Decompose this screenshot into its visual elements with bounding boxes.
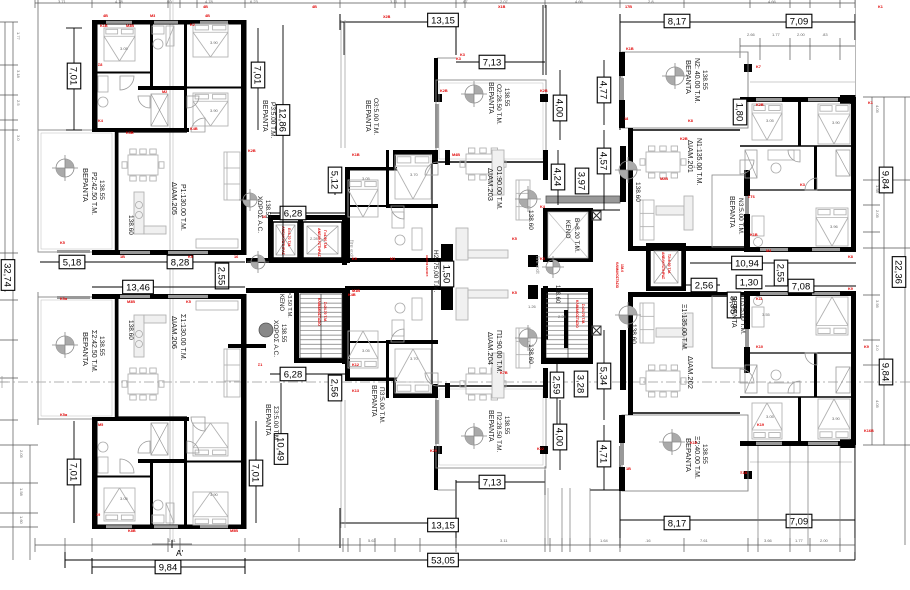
- svg-text:Κ10: Κ10: [756, 345, 763, 349]
- svg-text:5,12: 5,12: [329, 171, 340, 190]
- dim 22,36 right: [892, 257, 906, 288]
- svg-text:4,77: 4,77: [598, 81, 609, 100]
- svg-text:4Β: 4Β: [312, 5, 317, 9]
- wall center bridge: [441, 244, 453, 262]
- svg-text:1,50: 1,50: [441, 265, 452, 284]
- svg-text:4,71: 4,71: [598, 445, 609, 464]
- svg-text:Κ9: Κ9: [864, 345, 869, 349]
- apartment DIAM.201 top-right unit: [619, 52, 856, 252]
- svg-text:Κ5α: Κ5α: [60, 413, 68, 417]
- svg-text:1.64: 1.64: [600, 538, 609, 543]
- svg-text:4.78: 4.78: [205, 0, 214, 4]
- svg-text:Π3:5.00 Τ.Μ.: Π3:5.00 Τ.Μ.: [378, 387, 385, 424]
- dim 4,24: [557, 150, 559, 205]
- svg-text:3.18: 3.18: [16, 70, 21, 79]
- svg-text:3,28: 3,28: [575, 375, 586, 394]
- svg-text:8,17: 8,17: [668, 16, 687, 27]
- svg-text:Κ5: Κ5: [60, 241, 65, 245]
- svg-text:.16: .16: [645, 538, 651, 543]
- svg-text:3.0: 3.0: [16, 135, 21, 141]
- void KENO hatch: [548, 212, 588, 258]
- svg-text:Α': Α': [176, 548, 184, 558]
- svg-text:3.11: 3.11: [500, 538, 508, 543]
- svg-text:4,57: 4,57: [598, 152, 609, 171]
- svg-text:Τ2=6.50 Τ.Μ.: Τ2=6.50 Τ.Μ.: [667, 254, 671, 274]
- dim 5,34: [603, 330, 605, 420]
- svg-text:3.05: 3.05: [362, 176, 371, 181]
- svg-text:4,00: 4,00: [554, 428, 565, 447]
- svg-text:Κ8Β: Κ8Β: [128, 529, 136, 533]
- svg-text:Κ2Β: Κ2Β: [756, 103, 764, 107]
- svg-text:5,34: 5,34: [598, 367, 609, 386]
- svg-text:3.90: 3.90: [210, 492, 219, 497]
- svg-text:Κ15: Κ15: [690, 441, 697, 445]
- svg-text:3.11: 3.11: [390, 0, 398, 4]
- dim 32,74 left: [1, 260, 15, 291]
- dim 2,55 left: [215, 263, 229, 289]
- svg-text:ΒΕΡΑΝΤΑ: ΒΕΡΑΝΤΑ: [81, 168, 90, 202]
- wall left core bottom (stairwell): [246, 288, 350, 293]
- svg-text:Β=8.20 Τ.Μ.: Β=8.20 Τ.Μ.: [573, 218, 580, 253]
- svg-text:1Β: 1Β: [120, 255, 125, 259]
- svg-text:Σ3:5.00 Τ.Μ.: Σ3:5.00 Τ.Μ.: [272, 406, 279, 442]
- wire top dim 13,15: [340, 21, 456, 23]
- elevator E=3.70 left: [273, 222, 298, 258]
- apartment DIAM.202 bottom-right unit (mirrored): [619, 291, 856, 491]
- svg-text:ΒΕΡΑΝΤΑ: ΒΕΡΑΝΤΑ: [728, 196, 735, 228]
- svg-text:Μ3Β: Μ3Β: [126, 24, 134, 28]
- svg-text:3.96: 3.96: [830, 224, 839, 229]
- wire dim 53,05: [65, 559, 855, 561]
- svg-text:Σ1: Σ1: [258, 363, 262, 367]
- svg-text:2.66: 2.66: [747, 32, 756, 37]
- node circle O2: [461, 81, 487, 107]
- svg-text:ΚΕΝΟ: ΚΕΝΟ: [564, 220, 571, 238]
- svg-text:4Β: 4Β: [203, 5, 208, 9]
- svg-text:4,00: 4,00: [554, 99, 565, 118]
- svg-text:2.5: 2.5: [16, 100, 21, 106]
- wire top boundary dim line: [35, 2, 855, 4]
- svg-text:Κ5: Κ5: [512, 291, 517, 295]
- svg-text:3.05: 3.05: [766, 414, 775, 419]
- svg-text:ΔΙΑΜ.202: ΔΙΑΜ.202: [686, 356, 695, 389]
- svg-text:138.55: 138.55: [98, 180, 105, 200]
- svg-text:1,80: 1,80: [734, 103, 745, 122]
- wire bottom-left dim row: [92, 566, 245, 568]
- svg-text:8,17: 8,17: [668, 518, 687, 529]
- svg-text:Μ2: Μ2: [162, 90, 167, 94]
- node column circle right core: [542, 256, 564, 278]
- svg-text:3.90: 3.90: [832, 416, 841, 421]
- svg-text:2.8: 2.8: [648, 0, 654, 4]
- svg-text:3.90: 3.90: [832, 120, 841, 125]
- svg-text:10,94: 10,94: [735, 258, 759, 269]
- apartment DIAM.204 bottom-middle unit (mirrored): [341, 286, 548, 528]
- svg-text:.83: .83: [822, 32, 828, 37]
- svg-text:Κ1Β: Κ1Β: [100, 24, 108, 28]
- svg-text:Ξ1:135.00 Τ.Μ.: Ξ1:135.00 Τ.Μ.: [680, 304, 687, 351]
- svg-text:Κ9: Κ9: [848, 287, 853, 291]
- dim 2,59: [556, 362, 558, 430]
- svg-text:ΒΕΡΑΝΤΑ: ΒΕΡΑΝΤΑ: [81, 332, 90, 366]
- dim 7,01 bl-right: [255, 421, 257, 523]
- svg-text:13,15: 13,15: [431, 15, 455, 26]
- svg-text:4Β: 4Β: [103, 14, 108, 18]
- svg-text:4.66: 4.66: [768, 0, 777, 4]
- node circle O1: [515, 186, 541, 212]
- svg-text:Κ19: Κ19: [757, 423, 764, 427]
- wall right core verticals: [620, 146, 626, 202]
- wire top tick verticals small: [37, 0, 39, 8]
- svg-text:Η2=75,00 Τ.Μ.: Η2=75,00 Τ.Μ.: [432, 250, 439, 293]
- svg-text:4.66: 4.66: [575, 0, 584, 4]
- svg-text:4.05: 4.05: [875, 105, 880, 114]
- svg-text:1.58: 1.58: [19, 488, 24, 497]
- wall stub left of core: [228, 344, 266, 348]
- wire left lower dims: [12, 292, 14, 560]
- svg-text:Κ1Β: Κ1Β: [750, 233, 758, 237]
- dim 13,46: [92, 286, 245, 288]
- svg-text:ΒΕΡΑΝΤΑ: ΒΕΡΑΝΤΑ: [264, 404, 271, 436]
- node circle N1: [615, 157, 641, 183]
- svg-text:7,13: 7,13: [483, 57, 502, 68]
- wire bottom dim 8,17/7,09: [620, 519, 855, 521]
- svg-text:4,24: 4,24: [552, 168, 563, 187]
- node column circle top-left core: [239, 189, 261, 211]
- apartment DIAM.203 top-middle unit: [341, 20, 548, 262]
- svg-text:ΒΕΡΑΝΤΑ: ΒΕΡΑΝΤΑ: [684, 60, 693, 94]
- wire left balcony dim line x38: [37, 8, 39, 130]
- svg-text:3.90: 3.90: [210, 40, 219, 45]
- wire centerline dash-dot: [0, 381, 910, 383]
- svg-text:Μ4: Μ4: [766, 249, 772, 253]
- svg-text:Χ2Β: Χ2Β: [383, 15, 391, 19]
- svg-text:ΔΙΑΜ.205: ΔΙΑΜ.205: [170, 182, 179, 215]
- svg-text:ΔΙΑΜ.204: ΔΙΑΜ.204: [486, 332, 495, 365]
- svg-text:7,13: 7,13: [483, 477, 502, 488]
- svg-text:3,97: 3,97: [576, 172, 587, 191]
- dim 8,28: [167, 255, 193, 269]
- wire section line A-A vertical: [169, 0, 171, 540]
- svg-text:2.00: 2.00: [820, 538, 829, 543]
- svg-text:ΒΕΡΑΝΤΑ: ΒΕΡΑΝΤΑ: [364, 100, 371, 132]
- wire left boundary dims: [4, 22, 6, 292]
- svg-text:ΒΕΡΑΝΤΑ: ΒΕΡΑΝΤΑ: [261, 100, 268, 132]
- svg-text:138.60: 138.60: [554, 285, 560, 304]
- dim 8,17 top: [664, 14, 690, 28]
- svg-text:Κ5: Κ5: [512, 237, 517, 241]
- svg-text:2,55: 2,55: [775, 264, 786, 283]
- wire top dim 8,17/7,09: [620, 21, 855, 23]
- svg-text:2.07: 2.07: [500, 0, 509, 4]
- svg-text:2.0: 2.0: [875, 345, 880, 351]
- dim 10,49: [280, 383, 282, 460]
- dim 4,00 top: [559, 70, 561, 140]
- svg-text:Σ=24.70 Τ.Μ.: Σ=24.70 Τ.Μ.: [323, 302, 327, 322]
- svg-text:ΒΕΡΑΝΤΑ: ΒΕΡΑΝΤΑ: [370, 385, 377, 417]
- svg-text:16: 16: [234, 255, 238, 259]
- svg-text:Κ5: Κ5: [540, 257, 545, 261]
- dim 4,71 bottom: [603, 425, 605, 490]
- dim 4,57: [603, 130, 605, 210]
- svg-text:5.63: 5.63: [368, 538, 377, 543]
- svg-text:Κ3: Κ3: [460, 53, 465, 57]
- svg-text:7,09: 7,09: [790, 16, 809, 27]
- elevator T2 right: [650, 247, 682, 287]
- svg-text:Κ8: Κ8: [848, 255, 853, 259]
- svg-text:Ρ1:130.00 Τ.Μ.: Ρ1:130.00 Τ.Μ.: [179, 184, 186, 231]
- svg-text:1.26: 1.26: [693, 164, 702, 169]
- staircase left: [300, 294, 342, 358]
- svg-text:3.71: 3.71: [58, 0, 67, 4]
- dim 13,15 top: [428, 13, 459, 27]
- dim 53,05: [428, 553, 459, 567]
- apartment DIAM.205 top-left unit: [38, 20, 247, 255]
- svg-text:ΔΙΑΜ.203: ΔΙΑΜ.203: [486, 168, 495, 201]
- svg-text:Κ13: Κ13: [352, 389, 359, 393]
- wire bottom middle dim verticals: [544, 466, 546, 545]
- svg-text:Ρ3:5.00 Τ.Μ.: Ρ3:5.00 Τ.Μ.: [269, 102, 276, 139]
- dim 5,12: [334, 168, 336, 195]
- wire right lot line x855: [855, 0, 857, 97]
- svg-text:Κ7: Κ7: [756, 65, 761, 69]
- svg-text:Μ3: Μ3: [150, 14, 155, 18]
- node circle P2: [52, 155, 78, 181]
- svg-text:12,86: 12,86: [277, 108, 288, 132]
- svg-text:ΑΝΕΛΚΥΣΤΗΡΑΣ: ΑΝΕΛΚΥΣΤΗΡΑΣ: [317, 228, 321, 258]
- dim 9,84 right bottom: [879, 359, 893, 385]
- dim 7,09 top: [786, 14, 812, 28]
- svg-text:Σ1:130.00 Τ.Μ.: Σ1:130.00 Τ.Μ.: [179, 314, 186, 361]
- dim 13,15 bottom: [428, 518, 459, 532]
- svg-text:7,01: 7,01: [68, 463, 79, 482]
- svg-text:2,59: 2,59: [551, 376, 562, 395]
- svg-text:138.55: 138.55: [503, 416, 509, 435]
- dim 9,84 right top: [879, 167, 893, 193]
- svg-text:2.05: 2.05: [19, 450, 24, 459]
- svg-text:6,28: 6,28: [284, 369, 303, 380]
- svg-text:9,84: 9,84: [880, 363, 891, 382]
- svg-text:Ξ1Β: Ξ1Β: [740, 471, 748, 475]
- svg-text:2.28: 2.28: [310, 236, 319, 241]
- node column circle left core lower: [247, 251, 269, 273]
- svg-text:138.6: 138.6: [620, 264, 624, 272]
- svg-text:Μ3Β: Μ3Β: [127, 300, 135, 304]
- node x-box mid: [592, 326, 601, 335]
- svg-text:Μ1: Μ1: [390, 257, 395, 261]
- svg-text:1.60: 1.60: [19, 516, 24, 525]
- svg-text:13,46: 13,46: [126, 282, 150, 293]
- svg-text:138.55: 138.55: [503, 88, 509, 107]
- dim 4,00 bottom: [559, 400, 561, 470]
- svg-text:ΚΛΙΜΑΚΟΣΤΑΣΙΟ: ΚΛΙΜΑΚΟΣΤΑΣΙΟ: [317, 298, 321, 326]
- svg-text:138.55: 138.55: [701, 70, 708, 90]
- node x-box top: [592, 211, 601, 220]
- svg-text:Χ1Β: Χ1Β: [498, 5, 506, 9]
- svg-text:9,84: 9,84: [159, 562, 178, 573]
- svg-text:Κ2Β: Κ2Β: [680, 137, 688, 141]
- dim 2,55 right: [774, 260, 788, 286]
- svg-text:Κ7Β: Κ7Β: [500, 371, 508, 375]
- node circle P2 mid: [461, 423, 487, 449]
- svg-text:3.66: 3.66: [764, 538, 773, 543]
- svg-text:Κ1Β: Κ1Β: [352, 153, 360, 157]
- svg-text:4.78: 4.78: [115, 0, 124, 4]
- svg-text:53,05: 53,05: [431, 555, 455, 566]
- svg-text:3.90: 3.90: [210, 108, 219, 113]
- svg-text:7,01: 7,01: [68, 67, 79, 86]
- svg-text:138.60: 138.60: [527, 210, 534, 230]
- wall keno room top: [543, 208, 548, 262]
- svg-text:Κ1Β: Κ1Β: [626, 47, 634, 51]
- dim 10,94: [690, 262, 856, 264]
- svg-text:4Β: 4Β: [205, 14, 210, 18]
- dim 3,28: [574, 371, 588, 397]
- dim 6,28 left bottom: [270, 373, 345, 375]
- node centerline cross left: [1, 376, 3, 388]
- dim 3,97: [575, 168, 589, 194]
- dim 1,50 center: [440, 261, 454, 287]
- svg-text:7,01: 7,01: [250, 464, 261, 483]
- dim 7,01 tl-right: [257, 28, 259, 130]
- svg-text:9,84: 9,84: [880, 171, 891, 190]
- svg-text:Κ5: Κ5: [186, 300, 191, 304]
- svg-text:Κ4Β: Κ4Β: [190, 127, 198, 131]
- svg-text:3.95: 3.95: [875, 300, 880, 309]
- svg-text:1.77: 1.77: [772, 32, 781, 37]
- svg-text:7,08: 7,08: [792, 281, 811, 292]
- svg-text:Ε=3.70 Τ.Μ.: Ε=3.70 Τ.Μ.: [287, 228, 291, 247]
- elevator G=4.50 left: [303, 222, 342, 258]
- svg-text:Κ20: Κ20: [430, 449, 437, 453]
- svg-text:1.26: 1.26: [528, 304, 537, 309]
- svg-text:Κ12: Κ12: [352, 363, 359, 367]
- wire bottom tick row: [35, 544, 855, 546]
- wire N2 terrace edge line: [750, 81, 855, 83]
- svg-text:2,56: 2,56: [329, 379, 340, 398]
- svg-text:ΚΛΙΜΑΚΟΣΤΑΣΙΟ: ΚΛΙΜΑΚΟΣΤΑΣΙΟ: [615, 262, 619, 289]
- node column dark circle: [259, 323, 273, 337]
- svg-text:4.05: 4.05: [875, 400, 880, 409]
- dim 2,56 right: [686, 284, 720, 286]
- svg-text:Κ2Β: Κ2Β: [248, 149, 256, 153]
- svg-text:13,15: 13,15: [431, 520, 455, 531]
- wire right boundary dims: [871, 97, 873, 445]
- svg-text:8,28: 8,28: [171, 257, 190, 268]
- svg-text:Κ4Β: Κ4Β: [348, 293, 356, 297]
- svg-text:Κ3: Κ3: [800, 183, 805, 187]
- svg-text:Κ22: Κ22: [537, 447, 544, 451]
- svg-text:7,09: 7,09: [790, 516, 809, 527]
- node circle N2: [662, 63, 688, 89]
- svg-text:Ο3:5.00 Τ.Μ.: Ο3:5.00 Τ.Μ.: [372, 98, 379, 135]
- svg-text:1.77: 1.77: [795, 538, 804, 543]
- svg-text:ΚΛΙΜΑΚΟΣΤΑΣΙΟ: ΚΛΙΜΑΚΟΣΤΑΣΙΟ: [575, 300, 579, 328]
- svg-text:Κ2Β: Κ2Β: [540, 89, 548, 93]
- svg-text:3.05: 3.05: [120, 496, 129, 501]
- svg-text:Κ1: Κ1: [878, 5, 883, 9]
- svg-text:Σ=24.70 Τ.Μ.: Σ=24.70 Τ.Μ.: [581, 304, 585, 324]
- svg-text:Κ5α: Κ5α: [60, 297, 68, 301]
- dim 5,18: [40, 261, 245, 263]
- svg-text:Ν2: 40.00 Τ.Μ.: Ν2: 40.00 Τ.Μ.: [693, 58, 700, 103]
- svg-text:Μ5Β: Μ5Β: [230, 529, 238, 533]
- dim 7,09 bottom: [786, 514, 812, 528]
- svg-text:138.55: 138.55: [280, 324, 286, 343]
- svg-text:Κ3: Κ3: [456, 57, 461, 61]
- svg-text:=3.50 Τ.Μ.: =3.50 Τ.Μ.: [286, 292, 292, 318]
- wall corridor chunks right core: [528, 255, 538, 267]
- svg-text:Κ9: Κ9: [352, 257, 357, 261]
- svg-text:2,56: 2,56: [695, 280, 714, 291]
- svg-text:Κ3Β: Κ3Β: [126, 131, 134, 135]
- svg-text:138.60: 138.60: [127, 320, 134, 340]
- svg-text:18: 18: [624, 117, 628, 121]
- wire top sub-ticks right: [740, 45, 855, 47]
- svg-text:3.05: 3.05: [362, 348, 371, 353]
- svg-text:Κ8: Κ8: [688, 119, 693, 123]
- svg-text:Π1:90.00 Τ.Μ.: Π1:90.00 Τ.Μ.: [495, 330, 502, 374]
- dim 2,56 left-core: [334, 380, 336, 400]
- svg-text:fire exit: fire exit: [348, 240, 354, 258]
- svg-text:ΒΕΡΑΝΤΑ: ΒΕΡΑΝΤΑ: [487, 410, 494, 442]
- svg-text:2.28: 2.28: [558, 314, 567, 319]
- dim 7,01 tl-left: [73, 28, 75, 130]
- svg-text:3.70: 3.70: [410, 356, 419, 361]
- dim 1,30: [736, 281, 762, 283]
- svg-text:32,74: 32,74: [2, 263, 13, 287]
- svg-text:3.05: 3.05: [766, 118, 775, 123]
- svg-text:Μ2Β: Μ2Β: [660, 177, 668, 181]
- svg-text:ΧΩΡΟΣ A.C.: ΧΩΡΟΣ A.C.: [272, 320, 279, 357]
- svg-text:Ν1:135.00 Τ.Μ.: Ν1:135.00 Τ.Μ.: [695, 138, 702, 185]
- svg-text:19: 19: [96, 513, 100, 517]
- svg-text:Κ2: Κ2: [190, 23, 195, 27]
- svg-text:16: 16: [262, 215, 266, 219]
- svg-text:2.05: 2.05: [875, 210, 880, 219]
- svg-text:ΒΕΡΑΝΤΑ: ΒΕΡΑΝΤΑ: [487, 82, 494, 114]
- wire left mid ticks: [0, 299, 18, 301]
- svg-text:ΒΕΡΑΝΤΑ: ΒΕΡΑΝΤΑ: [730, 296, 737, 328]
- svg-text:Κ2Β: Κ2Β: [440, 89, 448, 93]
- svg-text:Κ5: Κ5: [188, 255, 193, 259]
- svg-text:ΔΙΑΜ.206: ΔΙΑΜ.206: [170, 316, 179, 349]
- svg-text:Κ1: Κ1: [868, 101, 873, 105]
- svg-text:1,30: 1,30: [740, 277, 759, 288]
- dim 1,80: [733, 99, 747, 125]
- svg-text:3.70: 3.70: [410, 172, 419, 177]
- svg-text:5,18: 5,18: [63, 257, 82, 268]
- svg-text:7.61: 7.61: [700, 538, 709, 543]
- svg-text:Ο1:90.00 Τ.Μ.: Ο1:90.00 Τ.Μ.: [495, 166, 502, 210]
- dim 6,28 left top: [270, 212, 345, 214]
- svg-text:ΚΕΝΟ: ΚΕΝΟ: [278, 294, 284, 311]
- svg-text:138.55: 138.55: [701, 444, 708, 464]
- dim 3,95: [727, 292, 741, 318]
- svg-text:17Β: 17Β: [625, 5, 632, 9]
- apartment DIAM.206 bottom-left unit (mirrored): [38, 294, 247, 529]
- dim 8,17 bottom: [664, 516, 690, 530]
- staircase right: [546, 294, 590, 358]
- wire Xi2 terrace edge line: [750, 461, 852, 463]
- wall around right elevator: [646, 245, 650, 291]
- dim 7,13 bottom: [456, 481, 545, 483]
- dim 12,86: [282, 25, 284, 258]
- svg-text:138.60: 138.60: [634, 182, 641, 202]
- svg-text:1Β: 1Β: [626, 467, 631, 471]
- svg-text:138.60: 138.60: [127, 215, 134, 235]
- svg-text:22,36: 22,36: [893, 260, 904, 284]
